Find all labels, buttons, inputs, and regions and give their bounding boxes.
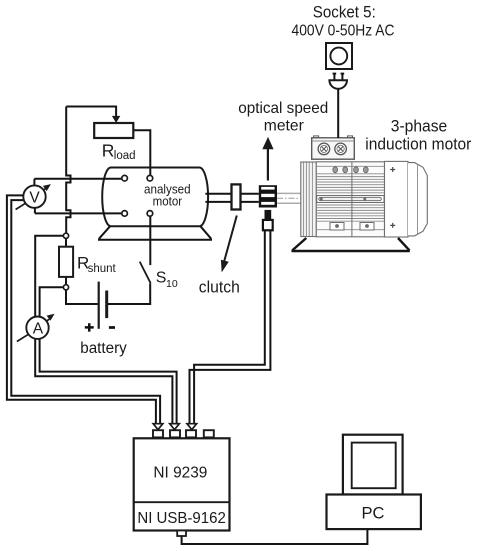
svg-text:load: load [114,150,136,162]
svg-text:PC: PC [361,505,384,523]
svg-text:S: S [156,269,167,286]
svg-text:V: V [29,189,40,206]
svg-text:NI USB-9162: NI USB-9162 [137,510,226,527]
svg-text:3-phase: 3-phase [391,118,448,136]
svg-text:400V 0-50Hz AC: 400V 0-50Hz AC [292,23,395,40]
svg-text:optical speed: optical speed [238,100,328,117]
svg-text:A: A [33,320,44,337]
svg-text:motor: motor [153,193,183,208]
svg-text:10: 10 [166,278,178,290]
svg-text:NI 9239: NI 9239 [153,465,207,482]
svg-text:shunt: shunt [88,263,117,275]
svg-text:clutch: clutch [199,278,240,296]
svg-text:R: R [102,141,115,161]
svg-text:meter: meter [264,118,305,135]
svg-text:battery: battery [80,340,127,357]
svg-text:Socket 5:: Socket 5: [313,4,376,22]
svg-text:induction motor: induction motor [365,136,471,154]
